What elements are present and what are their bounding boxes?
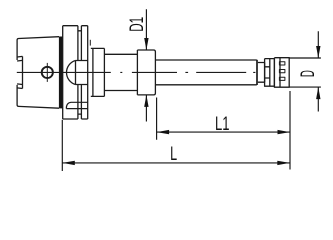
svg-text:L1: L1 (215, 114, 230, 135)
svg-text:L: L (170, 144, 177, 165)
svg-text:D: D (298, 70, 319, 77)
svg-text:D1: D1 (127, 17, 148, 32)
